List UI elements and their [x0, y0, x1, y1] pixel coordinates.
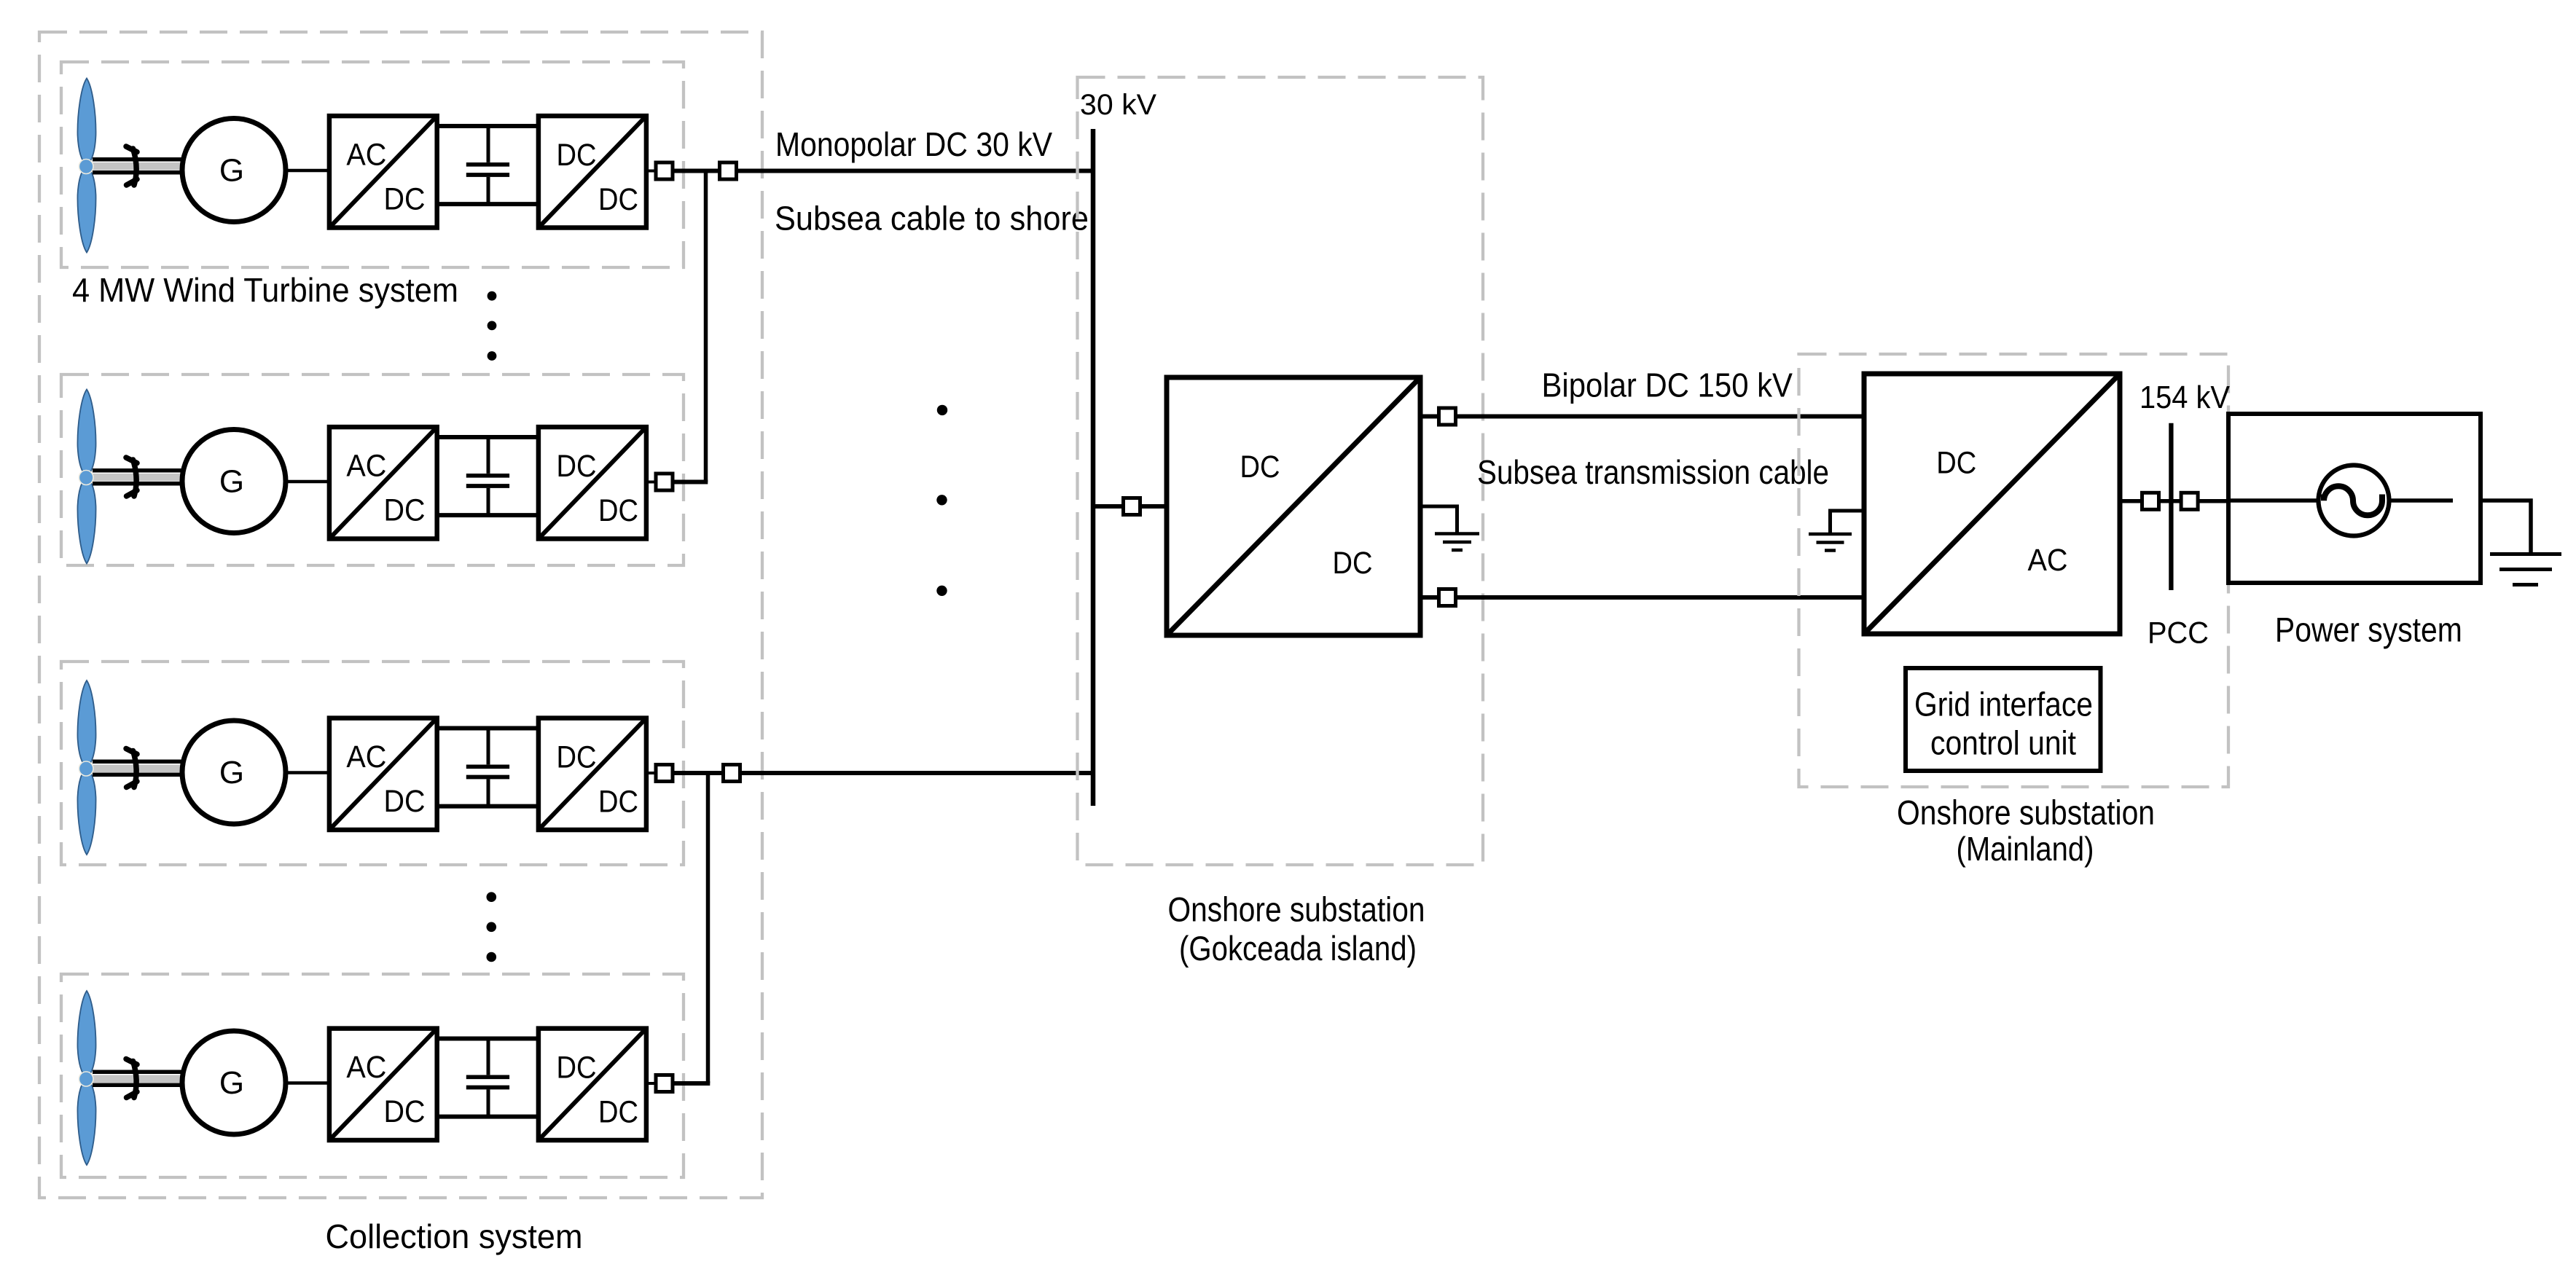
AC/DC converter box (turbine 1): [329, 116, 437, 227]
connector square (PCC right): [2181, 493, 2198, 509]
DC link bottom wire: [437, 1115, 539, 1119]
svg-text:DC: DC: [1936, 446, 1976, 481]
svg-text:DC: DC: [557, 138, 597, 173]
svg-text:DC: DC: [598, 1095, 638, 1130]
dots between turbine 3 and 4: [487, 892, 497, 962]
wire power system to ground: [2481, 501, 2531, 552]
power system box: [2228, 414, 2481, 583]
connector square (bipolar - ): [1439, 589, 1456, 606]
bipolar top cable: [1420, 415, 1864, 419]
DC link top wire: [437, 1037, 539, 1041]
svg-text:DC: DC: [384, 182, 426, 217]
turbine 1 hub: [79, 160, 93, 174]
svg-text:DC: DC: [384, 493, 426, 528]
svg-text:DC: DC: [1333, 546, 1373, 581]
bipolar bottom cable: [1420, 595, 1864, 600]
DC link top wire: [437, 435, 539, 439]
DC link top wire: [437, 726, 539, 731]
output stub wire: [646, 170, 657, 173]
connector square (turbine 4 output): [656, 1075, 673, 1092]
svg-text:(Gokceada island): (Gokceada island): [1179, 929, 1417, 968]
svg-text:G: G: [219, 153, 244, 189]
DC/DC converter box (turbine 1): [539, 116, 646, 227]
svg-text:DC: DC: [384, 1094, 426, 1129]
generator G3 circle: [182, 721, 286, 824]
turbine 1 shaft: [86, 157, 182, 175]
label Onshore substation (Gokceada island): [1168, 890, 1425, 968]
output stub wire: [646, 772, 657, 774]
svg-text:Power system: Power system: [2275, 611, 2462, 649]
turbine 4 hub: [79, 1072, 93, 1086]
wind turbine system 2 dashed box: [61, 374, 684, 565]
generator G2 circle: [182, 430, 286, 533]
collection system outer dashed box: [39, 32, 762, 1198]
DC/DC station converter U1: [1167, 377, 1420, 635]
turbine 3 blades: [77, 680, 95, 855]
generator G1 circle: [182, 119, 286, 222]
svg-text:(Mainland): (Mainland): [1957, 830, 2094, 868]
wire turbine4 to junction: [673, 1081, 710, 1086]
svg-text:DC: DC: [1240, 450, 1280, 484]
svg-text:Subsea transmission cable: Subsea transmission cable: [1477, 453, 1829, 491]
junction wire turbine1-turbine2: [704, 171, 708, 482]
connector square (feeder 1): [720, 162, 737, 179]
onshore substation (Mainland) dashed box: [1799, 354, 2229, 787]
turbine 3 rotation arrow: [126, 749, 137, 788]
turbine 4 rotation arrow: [126, 1059, 137, 1098]
wire generator to AC/DC: [286, 771, 332, 774]
svg-text:Collection system: Collection system: [326, 1217, 583, 1255]
DC link bottom wire: [437, 513, 539, 517]
svg-text:AC: AC: [346, 739, 386, 774]
wind turbine system 1 dashed box: [61, 62, 684, 267]
feeder 1 cable to 30kV bus: [737, 169, 1096, 173]
turbine 3 shaft: [86, 760, 182, 777]
connector square (turbine 1 output): [656, 162, 673, 179]
wind turbine system 3 dashed box: [61, 662, 684, 865]
wire turbine2 to junction: [673, 480, 708, 484]
ground (Gokceada station): [1420, 506, 1479, 550]
grid interface control unit box: [1906, 668, 2101, 771]
label Grid interface control unit: [1914, 686, 2093, 762]
DC/DC converter box (turbine 4): [539, 1029, 646, 1140]
wind turbine system 4 dashed box: [61, 974, 684, 1177]
connector square (station input): [1124, 498, 1140, 515]
svg-text:control unit: control unit: [1930, 723, 2076, 761]
onshore substation (Gokceada) dashed box: [1078, 77, 1484, 865]
DC link capacitor C1: [466, 126, 509, 204]
svg-text:Onshore substation: Onshore substation: [1897, 793, 2155, 832]
connector square (bipolar + ): [1439, 408, 1456, 425]
ground (Mainland station): [1809, 511, 1864, 551]
DC/DC converter box (turbine 3): [539, 718, 646, 830]
wire generator to AC/DC: [286, 480, 332, 484]
svg-text:Subsea cable to shore: Subsea cable to shore: [775, 200, 1089, 238]
DC link bottom wire: [437, 804, 539, 809]
wire bus to DC/DC station: [1095, 504, 1167, 509]
svg-text:4 MW Wind Turbine system: 4 MW Wind Turbine system: [72, 271, 458, 309]
AC source sine wave: [2324, 486, 2382, 515]
svg-text:154 kV: 154 kV: [2140, 380, 2231, 415]
AC/DC converter box (turbine 2): [329, 427, 437, 538]
turbine 2 rotation arrow: [126, 458, 137, 496]
svg-text:PCC: PCC: [2148, 616, 2209, 650]
label Onshore substation (Mainland): [1897, 793, 2155, 868]
turbine 1 blades: [77, 79, 95, 253]
dots between turbine 1 and 2: [488, 291, 497, 361]
svg-text:G: G: [219, 1065, 244, 1101]
AC/DC converter box (turbine 4): [329, 1029, 437, 1140]
turbine 2 hub: [79, 471, 93, 485]
output stub wire: [646, 481, 657, 484]
AC source circle: [2319, 466, 2389, 536]
svg-text:DC: DC: [598, 493, 638, 528]
svg-text:AC: AC: [346, 1050, 386, 1085]
turbine 2 blades: [77, 390, 95, 564]
svg-text:AC: AC: [346, 137, 386, 172]
DC link capacitor C3: [466, 729, 509, 807]
svg-text:Monopolar DC 30 kV: Monopolar DC 30 kV: [775, 125, 1052, 163]
30 kV bus bar: [1091, 129, 1096, 806]
PCC bus bar: [2169, 423, 2173, 590]
svg-text:Bipolar DC 150 kV: Bipolar DC 150 kV: [1542, 366, 1793, 404]
turbine 4 blades: [77, 991, 95, 1165]
junction wire turbine3-turbine4: [706, 773, 710, 1083]
svg-text:AC: AC: [346, 448, 386, 483]
svg-text:Grid interface: Grid interface: [1914, 686, 2093, 723]
feeder 2 cable to 30kV bus: [740, 771, 1096, 775]
wire inside power system (right): [2392, 498, 2454, 503]
DC link top wire: [437, 124, 539, 128]
output stub wire: [646, 1082, 657, 1085]
DC/AC station converter U2: [1864, 374, 2120, 634]
turbine 1 rotation arrow: [126, 146, 137, 185]
DC link capacitor C2: [466, 437, 509, 515]
connector square (feeder 2): [724, 765, 740, 782]
wire generator to AC/DC: [286, 169, 332, 173]
connector square (PCC left): [2142, 493, 2159, 509]
dots between feeders: [936, 405, 947, 596]
svg-text:Onshore substation: Onshore substation: [1168, 890, 1425, 929]
svg-text:G: G: [219, 464, 244, 500]
generator G4 circle: [182, 1031, 286, 1134]
wire inside power system (left): [2228, 498, 2318, 503]
ground (power system): [2490, 554, 2561, 585]
wire turbine1 to junction: [673, 169, 721, 173]
wire converter to PCC: [2120, 499, 2228, 503]
DC link capacitor C4: [466, 1039, 509, 1117]
svg-text:DC: DC: [557, 449, 597, 484]
svg-text:DC: DC: [384, 784, 426, 819]
svg-text:DC: DC: [557, 1051, 597, 1086]
svg-text:DC: DC: [598, 785, 638, 820]
svg-text:G: G: [219, 755, 244, 790]
wire turbine3 to junction: [673, 771, 724, 775]
svg-text:AC: AC: [2028, 543, 2068, 578]
svg-text:30 kV: 30 kV: [1080, 89, 1156, 121]
svg-text:DC: DC: [598, 182, 638, 217]
connector square (turbine 2 output): [656, 474, 673, 490]
AC/DC converter box (turbine 3): [329, 718, 437, 830]
DC/DC converter box (turbine 2): [539, 427, 646, 538]
wire generator to AC/DC: [286, 1081, 332, 1085]
turbine 2 shaft: [86, 468, 182, 486]
connector square (turbine 3 output): [656, 765, 673, 782]
DC link bottom wire: [437, 202, 539, 206]
turbine 4 shaft: [86, 1070, 182, 1088]
svg-text:DC: DC: [557, 740, 597, 775]
turbine 3 hub: [79, 761, 93, 776]
